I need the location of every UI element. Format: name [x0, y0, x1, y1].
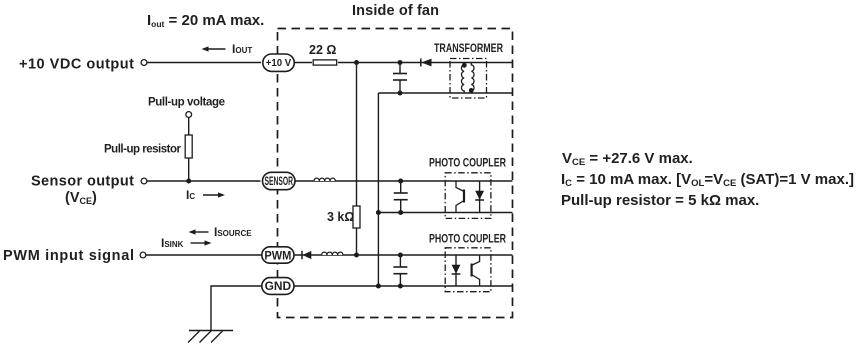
- terminal pull-up voltage: [186, 112, 192, 118]
- photo coupler U2: [445, 248, 491, 292]
- wire +10V row left: [147, 62, 261, 64]
- junction V2/GND row: [376, 284, 381, 289]
- junction C1/transformer bottom row: [398, 91, 403, 96]
- junction C2/coupler1 bottom row: [398, 210, 403, 215]
- terminal sensor output: [141, 178, 147, 184]
- svg-text:PWM input signal: PWM input signal: [3, 248, 134, 264]
- diode D2 PWM row: [301, 251, 303, 259]
- svg-text:3 kΩ: 3 kΩ: [327, 210, 354, 224]
- capacitor C2: [400, 181, 402, 193]
- svg-text:PHOTO COUPLER: PHOTO COUPLER: [429, 234, 507, 246]
- svg-text:Pull-up resistor: Pull-up resistor: [104, 144, 182, 156]
- junction C3/GND row: [398, 284, 403, 289]
- junction pull-up/sensor row: [186, 179, 191, 184]
- inductor L1 sensor row: [314, 178, 335, 181]
- label IOUT with left arrow: [207, 48, 226, 50]
- vertical wire V2 (transformer bottom to GND row): [377, 93, 379, 286]
- inductor L2 PWM row: [322, 252, 343, 255]
- svg-text:Pull-up resistor = 5 kΩ max.: Pull-up resistor = 5 kΩ max.: [561, 192, 759, 209]
- wire PWM row left: [146, 254, 262, 256]
- wire pull-up top: [188, 118, 190, 136]
- junction V2/coupler1 bottom: [376, 210, 381, 215]
- transformer polarity dot secondary: [469, 88, 474, 93]
- wire PWM row inside: [294, 254, 513, 256]
- oval terminal +10V: [263, 54, 295, 71]
- svg-text:SENSOR: SENSOR: [265, 176, 294, 188]
- LED in U1: [479, 181, 481, 213]
- transistor in U2: [472, 255, 479, 265]
- svg-text:Sensor output: Sensor output: [31, 174, 134, 190]
- svg-text:+10 V: +10 V: [266, 58, 292, 69]
- oval terminal PWM: [262, 247, 294, 263]
- capacitor C1: [399, 63, 401, 74]
- wire transformer bottom row: [378, 92, 512, 94]
- wire +10V row inside: [295, 62, 313, 64]
- svg-text:22 Ω: 22 Ω: [309, 43, 336, 57]
- svg-text:TRANSFORMER: TRANSFORMER: [434, 43, 504, 55]
- oval terminal GND: [262, 278, 294, 295]
- transformer T1: [450, 59, 487, 99]
- terminal PWM input: [140, 252, 146, 258]
- wire sensor row left: [147, 180, 261, 182]
- oval terminal SENSOR: [263, 172, 296, 189]
- svg-text:Iout = 20 mA max.: Iout = 20 mA max.: [147, 12, 264, 29]
- vertical wire V1 (from +10V row to PWM row via 3k): [356, 63, 358, 207]
- resistor pull-up: [185, 135, 192, 158]
- junction C1/+10V row: [398, 60, 403, 65]
- photo coupler U1: [445, 173, 491, 219]
- resistor 3 kohm: [353, 206, 360, 228]
- svg-text:Pull-up voltage: Pull-up voltage: [148, 97, 225, 109]
- dashed enclosure: Inside of fan: [278, 29, 513, 318]
- diode D1 top row: [420, 59, 422, 67]
- junction C3/PWM row: [398, 253, 403, 258]
- transformer polarity dot primary: [462, 63, 467, 68]
- wire coupler1 bottom row: [378, 212, 512, 214]
- junction V1/+10V row: [354, 60, 359, 65]
- svg-text:IC = 10 mA max. [VOL=VCE (SAT): IC = 10 mA max. [VOL=VCE (SAT)=1 V max.]: [561, 171, 854, 189]
- svg-text:PWM: PWM: [264, 248, 291, 262]
- junction V1/PWM row: [354, 253, 359, 258]
- capacitor C3: [399, 255, 401, 267]
- svg-text:PHOTO COUPLER: PHOTO COUPLER: [429, 158, 507, 170]
- resistor 22 ohm: [313, 60, 337, 65]
- transistor in U1: [456, 181, 463, 191]
- wire sensor row inside: [295, 180, 513, 182]
- wire GND row to ground: [211, 286, 262, 331]
- ground: [189, 330, 233, 332]
- terminal +10 VDC: [141, 60, 147, 66]
- svg-text:+10 VDC output: +10 VDC output: [19, 57, 134, 73]
- LED in U2: [455, 255, 457, 286]
- wire GND row inside: [294, 285, 513, 287]
- svg-text:Inside of fan: Inside of fan: [352, 3, 439, 19]
- svg-text:GND: GND: [265, 279, 292, 293]
- label ISOURCE with left arrow: [194, 231, 209, 233]
- wire pull-up bottom: [188, 158, 190, 181]
- junction C2/sensor row: [398, 179, 403, 184]
